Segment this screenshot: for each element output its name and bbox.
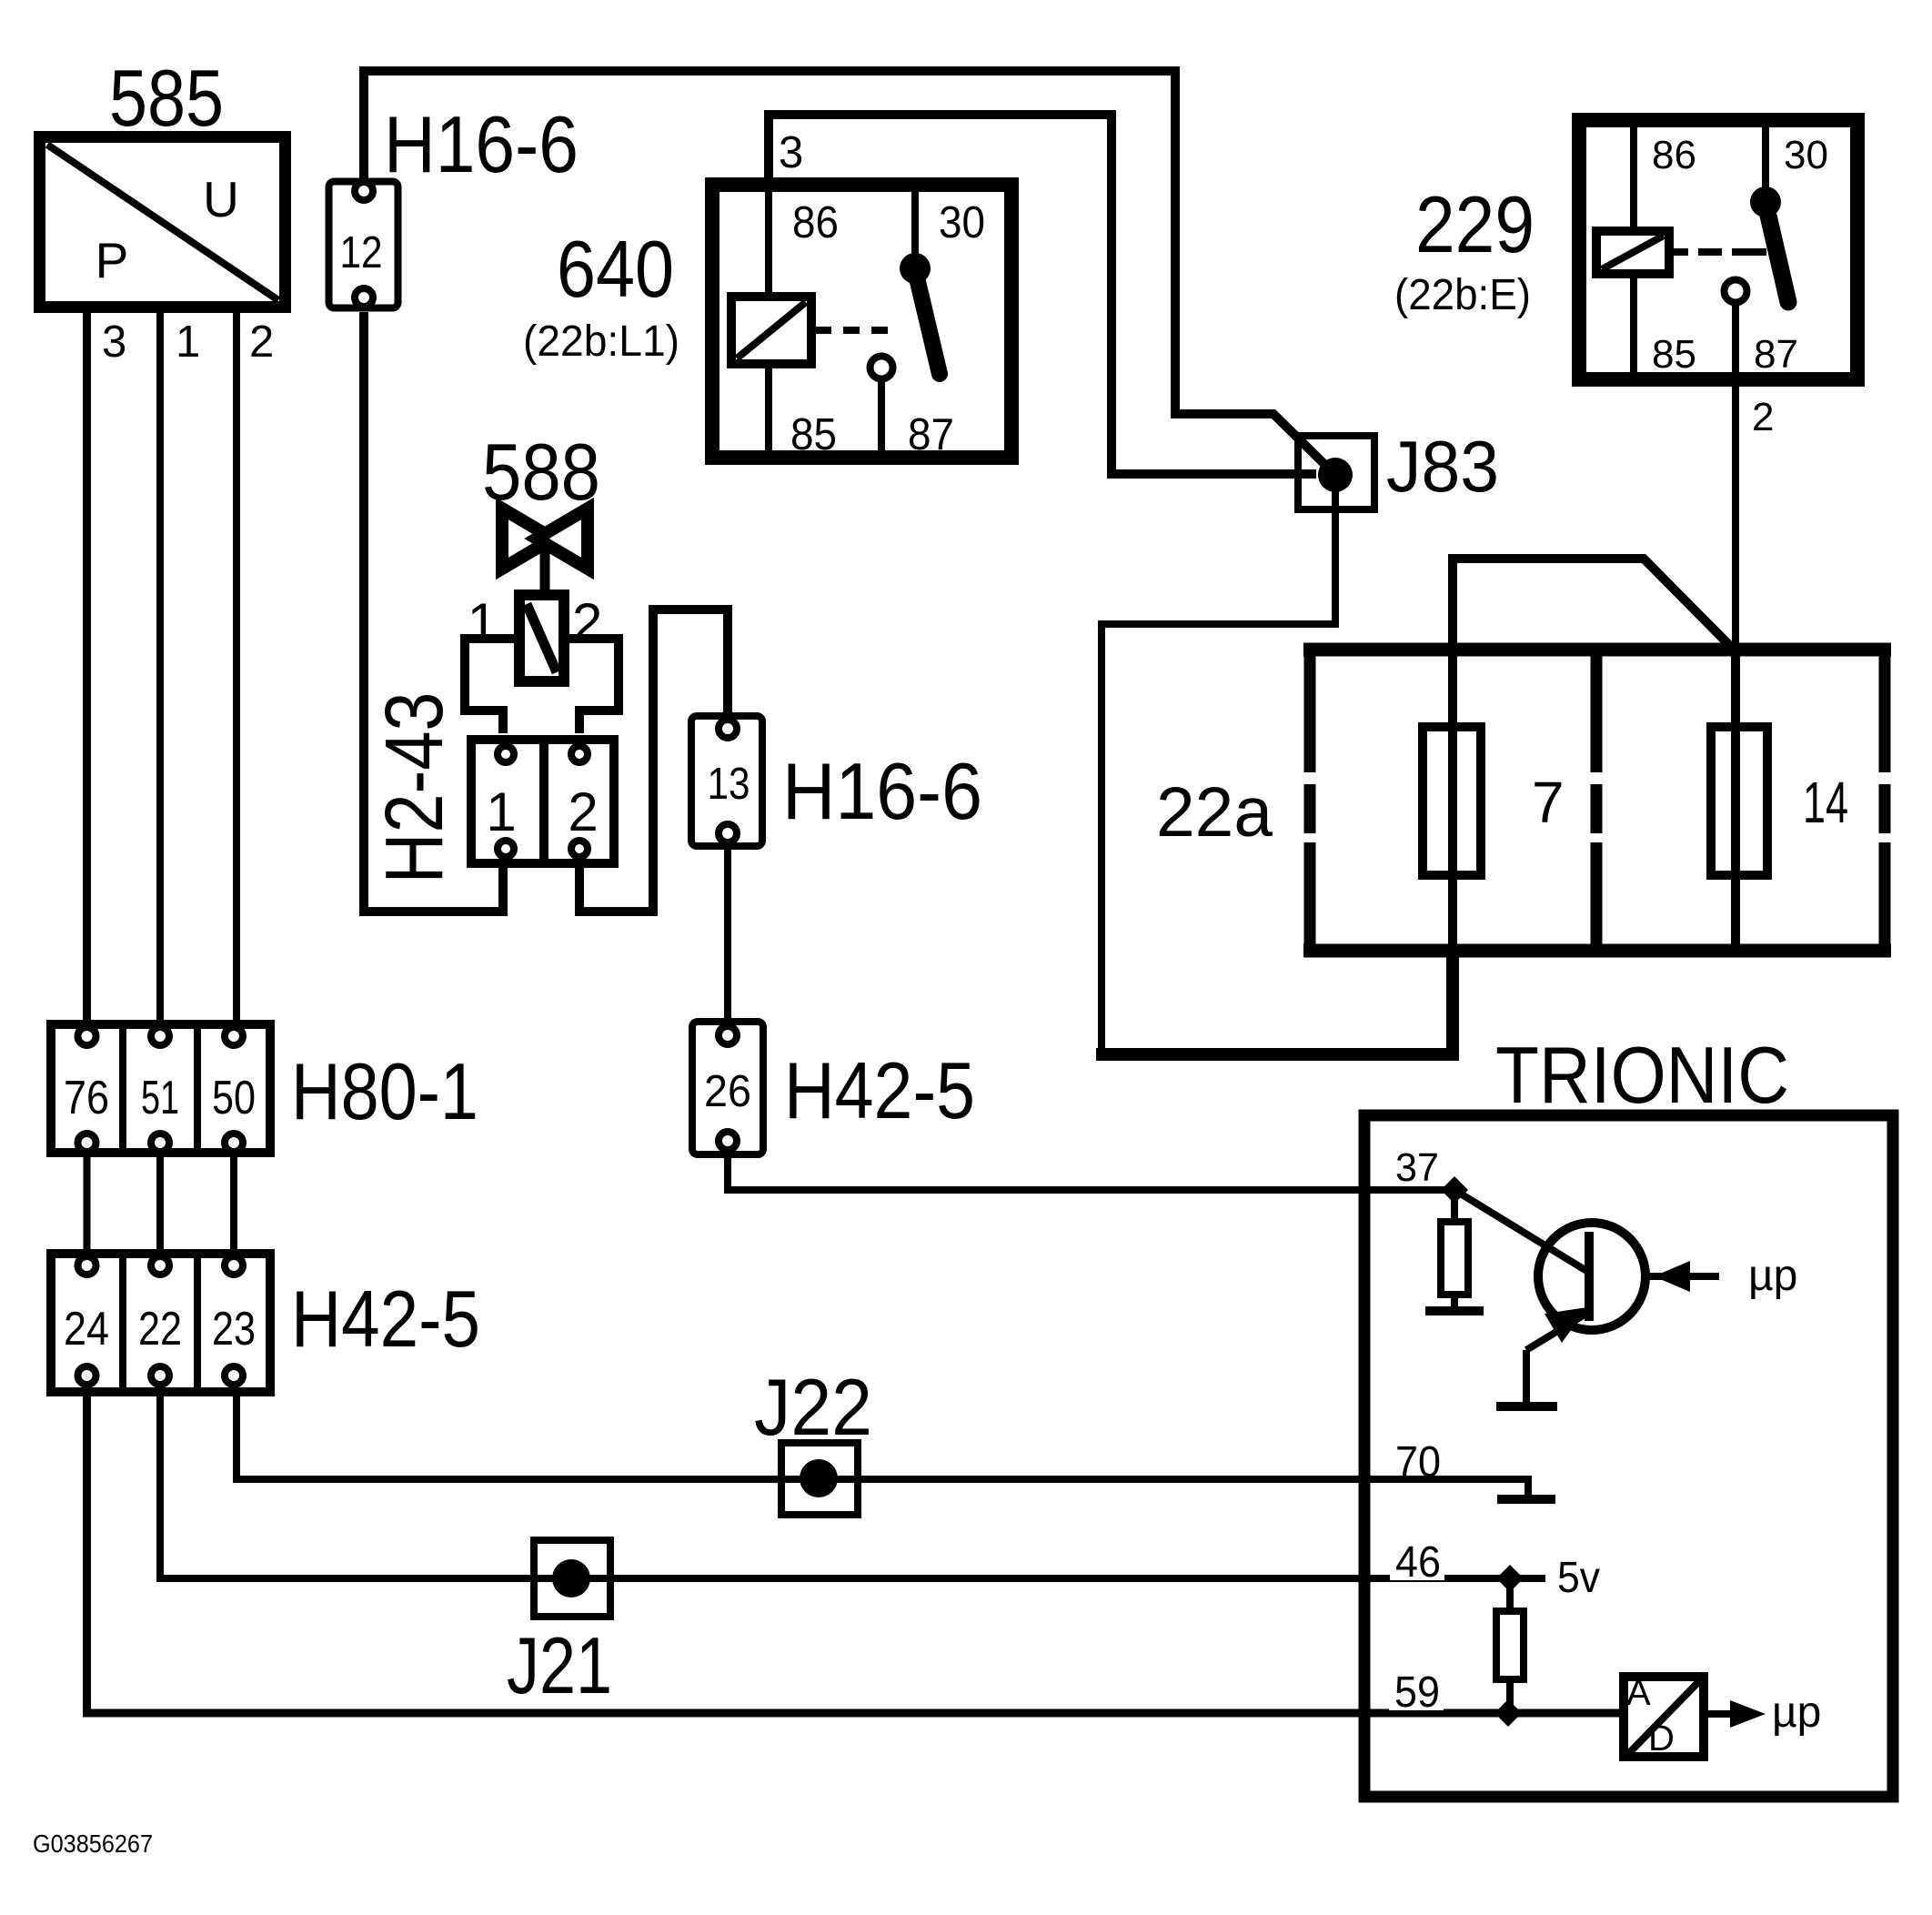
relay 229 pin 86 label: [1652, 133, 1696, 177]
relay 229 pin-87 terminal circle: [1725, 280, 1747, 303]
wire 585 pin 1 to H80-1:51: [156, 313, 164, 1023]
svg-text:70: 70: [1395, 1438, 1441, 1487]
relay 640 switch blade: [915, 270, 940, 374]
svg-text:µp: µp: [1748, 1252, 1797, 1300]
figure number G03856267: [33, 1829, 153, 1858]
TRIONIC pin 70 ground bar: [1497, 1495, 1555, 1504]
fuse 14 body: [1711, 718, 1767, 884]
wire 585 pin 2 to H80-1:50: [233, 313, 240, 1023]
svg-text:85: 85: [1652, 332, 1696, 377]
svg-text:22: 22: [138, 1303, 182, 1356]
relay 229 pin 85 label: [1652, 332, 1696, 377]
relay 229 coil-to-switch dashed link: [1674, 248, 1766, 256]
svg-text:86: 86: [1652, 133, 1696, 177]
relay 640 pin 3 label: [779, 128, 803, 177]
relay 229 pin 30 label: [1784, 133, 1828, 177]
junction J21 dot: [552, 1559, 590, 1598]
svg-text:30: 30: [939, 198, 985, 247]
svg-text:(22b:E): (22b:E): [1394, 271, 1531, 319]
svg-text:D: D: [1648, 1718, 1675, 1759]
transistor Q1 base link from node 37: [1454, 1190, 1588, 1272]
relay 229 internal pin-86 line: [1630, 122, 1637, 378]
signal ground below 37 resistor: [1425, 1306, 1484, 1315]
connector H16-6 pin 12 box: [329, 182, 398, 308]
relay 640 switch pivot: [900, 253, 931, 284]
TRIONIC ECU box: [1364, 1115, 1893, 1797]
A/D converter A label: [1626, 1673, 1651, 1713]
connector block H2-43: [471, 740, 614, 863]
fuse panel 22a right dashed edge: [1879, 650, 1891, 951]
connector block H80-1: [51, 1024, 270, 1153]
wire 585 pin 3 to H80-1:76: [83, 313, 91, 1023]
fuse 7 label: [1532, 770, 1565, 835]
connector H42-5 pin 26 box: [692, 1022, 763, 1154]
relay 640 location label (22b:L1): [523, 317, 679, 366]
TRIONIC pin 70 label: [1395, 1438, 1441, 1487]
valve coil pin 2 label: [572, 592, 602, 653]
wire pin 2 label: [1752, 395, 1774, 439]
svg-text:1: 1: [468, 592, 498, 653]
svg-text:640: 640: [557, 224, 674, 314]
svg-text:2: 2: [572, 592, 602, 653]
svg-text:H80-1: H80-1: [291, 1046, 478, 1136]
TRIONIC ECU label: [1495, 1030, 1789, 1120]
A/D converter U2: [1624, 1677, 1704, 1757]
wire fuse 7 through fuse panel: [1448, 646, 1457, 955]
connector block H42-5: [51, 1254, 270, 1392]
svg-text:12: 12: [340, 228, 383, 277]
relay 640 coil-to-switch dashed link: [815, 327, 911, 334]
node pin 59: [1494, 1699, 1522, 1727]
svg-text:46: 46: [1395, 1538, 1441, 1587]
fuse panel 22a label: [1156, 773, 1273, 852]
wire H16-6:12 top to junction J83 (via top run): [364, 71, 1332, 471]
H42-5 cell 22 label: [138, 1303, 182, 1356]
svg-text:7: 7: [1532, 770, 1565, 835]
TRIONIC pin 46 label: [1390, 1538, 1444, 1587]
connector pin 26 label: [704, 1067, 751, 1116]
sensor 585 pin 3 label: [102, 317, 126, 367]
relay 640 coil: [731, 297, 811, 364]
fuse panel 22a bottom edge: [1303, 944, 1891, 958]
valve 588 bowtie symbol: [502, 509, 588, 593]
A/D output arrow to microprocessor: [1708, 1700, 1766, 1728]
junction J83 dot: [1318, 458, 1353, 492]
wire H42-5:26 to TRIONIC pin 37: [728, 1154, 1454, 1190]
svg-text:229: 229: [1415, 179, 1535, 269]
svg-text:85: 85: [790, 410, 837, 459]
wire feed run to fuse 7 (thick): [1096, 949, 1453, 1054]
wire H80-1:51 to H42-5:22: [156, 1153, 164, 1252]
svg-text:TRIONIC: TRIONIC: [1495, 1030, 1789, 1120]
fuse panel 22a left dashed edge: [1304, 650, 1316, 951]
svg-text:23: 23: [212, 1303, 256, 1356]
transistor emitter ground bar: [1496, 1402, 1557, 1411]
node pin 37: [1441, 1176, 1468, 1204]
svg-text:2: 2: [1752, 395, 1774, 439]
svg-text:J22: J22: [754, 1362, 872, 1452]
H80-1 cell 51 label: [141, 1072, 179, 1124]
junction J22 box: [781, 1443, 858, 1515]
relay 229 pin-30 line: [1762, 124, 1769, 202]
wire H2-43:2 loop to H16-6:13: [579, 610, 728, 912]
wire through fuse 14: [1731, 650, 1740, 949]
relay 640 pin-30 line: [911, 188, 919, 268]
harness label H2-43 (rotated): [369, 692, 460, 884]
solenoid valve 588 label: [482, 427, 600, 517]
wire fuse 7 top to 22a feed point: [1453, 559, 1733, 650]
svg-text:59: 59: [1394, 1668, 1440, 1717]
relay 229 switch pivot: [1750, 186, 1781, 217]
connector H2-43 cell 2 label: [568, 781, 598, 842]
valve 588 coil: [519, 595, 564, 681]
wire relay 640 pin 3 to junction J83: [769, 115, 1316, 474]
junction J22 dot: [800, 1459, 838, 1497]
TRIONIC pin 37 label: [1395, 1145, 1439, 1190]
junction J83 box: [1298, 436, 1374, 509]
sensor 585 pin 1 label: [176, 317, 200, 367]
sensor 585 pin 2 label: [249, 317, 274, 367]
svg-text:G03856267: G03856267: [33, 1829, 153, 1858]
resistor at pin 37: [1441, 1190, 1468, 1309]
svg-text:87: 87: [1754, 332, 1798, 377]
svg-text:H42-5: H42-5: [784, 1045, 975, 1135]
H16-6 harness label (middle): [782, 746, 982, 836]
valve 588 solenoid body outline: [465, 639, 619, 733]
transistor Q1 emitter with arrow: [1526, 1307, 1589, 1402]
svg-text:87: 87: [908, 410, 954, 459]
connector pin 12 label: [340, 228, 383, 277]
TRIONIC pin 59 label: [1389, 1668, 1444, 1717]
wire H42-5:22 to TRIONIC pin 46 via J21: [160, 1392, 1545, 1578]
svg-text:76: 76: [64, 1072, 109, 1124]
svg-text:26: 26: [704, 1067, 751, 1116]
connector pin 13 label: [708, 760, 750, 809]
junction J83 label: [1386, 426, 1499, 507]
svg-text:51: 51: [141, 1072, 179, 1124]
relay 640 pin 86 label: [792, 198, 839, 247]
H80-1 cell 50 label: [212, 1072, 256, 1124]
svg-text:1: 1: [486, 781, 516, 842]
H42-5 harness label (middle): [784, 1045, 975, 1135]
relay 229 switch blade: [1766, 204, 1788, 302]
svg-text:H2-43: H2-43: [369, 692, 460, 884]
sensor 585 P label: [96, 232, 129, 288]
svg-text:µp: µp: [1772, 1688, 1821, 1737]
resistor between pin 46 and pin 59: [1496, 1578, 1524, 1713]
relay 640 pin 85 label: [790, 410, 837, 459]
junction J22 label: [754, 1362, 872, 1452]
wire J83 down to fuse 7 bottom: [1102, 491, 1335, 1051]
svg-text:37: 37: [1395, 1145, 1439, 1190]
microprocessor label (A/D): [1772, 1688, 1821, 1737]
node pin 46: [1496, 1565, 1524, 1592]
svg-text:86: 86: [792, 198, 839, 247]
svg-text:H42-5: H42-5: [291, 1274, 480, 1364]
svg-text:22a: 22a: [1156, 773, 1273, 852]
svg-text:14: 14: [1803, 770, 1848, 835]
sensor 585 diagonal: [47, 145, 278, 300]
relay 229 location label (22b:E): [1394, 271, 1531, 319]
fuse panel 22a top edge: [1303, 643, 1891, 657]
svg-text:5v: 5v: [1557, 1554, 1600, 1602]
svg-text:J83: J83: [1386, 426, 1499, 507]
wire H16-6:13 to H42-5:26: [724, 846, 731, 1021]
microprocessor label (transistor): [1748, 1252, 1797, 1300]
sensor 585 U label: [203, 171, 239, 227]
relay 640 pin 87 label: [908, 410, 954, 459]
svg-text:H16-6: H16-6: [384, 99, 579, 189]
svg-text:1: 1: [176, 317, 200, 367]
sensor 585 box: [40, 137, 286, 307]
relay 229 coil: [1596, 231, 1669, 274]
junction J21 label: [507, 1620, 612, 1710]
A/D converter D label: [1648, 1718, 1675, 1759]
relay 640 internal pin-86 line: [765, 186, 772, 455]
wire H42-5:24 to TRIONIC pin 59: [87, 1392, 1622, 1713]
relay 640 pin-87 wire stub: [878, 379, 885, 455]
transistor collector line to microprocessor: [1648, 1261, 1719, 1292]
wire H80-1:76 to H42-5:24: [84, 1153, 91, 1252]
svg-text:2: 2: [249, 317, 274, 367]
wire relay 229 pin 87 (pin 2) down to fuse panel 22a: [1732, 303, 1739, 650]
harness label H80-1: [291, 1046, 478, 1136]
H80-1 cell 76 label: [64, 1072, 109, 1124]
H16-6 harness label (top): [384, 99, 579, 189]
wire H16-6:12 to H2-43:1: [364, 312, 503, 912]
relay 640 pin-87 terminal circle: [870, 357, 893, 379]
relay 640 pin 30 label: [939, 198, 985, 247]
svg-text:30: 30: [1784, 133, 1828, 177]
relay 640 box: [712, 185, 1011, 458]
fuse panel 22a divider dashed edge: [1591, 650, 1603, 951]
svg-text:3: 3: [779, 128, 803, 177]
svg-text:J21: J21: [507, 1620, 612, 1710]
svg-text:3: 3: [102, 317, 126, 367]
svg-text:50: 50: [212, 1072, 256, 1124]
wire H80-1:50 to H42-5:23: [230, 1153, 237, 1252]
svg-text:(22b:L1): (22b:L1): [523, 317, 679, 366]
fuse 7 body: [1423, 718, 1481, 884]
valve coil pin 1 label: [468, 592, 498, 653]
harness label H42-5 (left): [291, 1274, 480, 1364]
relay 229 box: [1579, 120, 1857, 379]
connector H2-43 cell 1 label: [486, 781, 516, 842]
svg-text:24: 24: [64, 1303, 109, 1356]
H42-5 cell 24 label: [64, 1303, 109, 1356]
junction J21 box: [534, 1540, 610, 1617]
5v reference label: [1557, 1554, 1600, 1602]
pressure/voltage sensor 585 label: [109, 53, 224, 143]
wire H42-5:23 to TRIONIC pin 70 via J22: [236, 1392, 1528, 1496]
svg-text:585: 585: [109, 53, 224, 143]
relay 229 label: [1415, 179, 1535, 269]
svg-text:13: 13: [708, 760, 750, 809]
relay 640 label: [557, 224, 674, 314]
H42-5 cell 23 label: [212, 1303, 256, 1356]
svg-text:U: U: [203, 171, 239, 227]
transistor Q1: [1538, 1223, 1645, 1330]
fuse 14 label: [1803, 770, 1848, 835]
relay 229 pin 87 label: [1754, 332, 1798, 377]
svg-text:2: 2: [568, 781, 598, 842]
svg-text:A: A: [1626, 1673, 1651, 1713]
svg-text:P: P: [96, 232, 129, 288]
connector H16-6 pin 13 box: [691, 716, 762, 846]
svg-text:H16-6: H16-6: [782, 746, 982, 836]
